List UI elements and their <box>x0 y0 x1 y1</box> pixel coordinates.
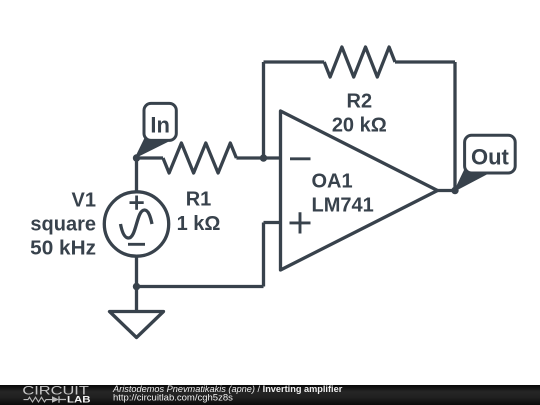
op-amp noninverting input plus sign <box>290 212 311 233</box>
wire noninverting vertical <box>262 223 265 287</box>
svg-text:In: In <box>150 112 170 137</box>
op-amp OA1 triangle <box>281 111 438 270</box>
svg-text:Out: Out <box>471 144 510 169</box>
wire R1 right to inverting input node <box>236 156 281 159</box>
node output junction <box>451 187 458 194</box>
wire feedback right vertical <box>453 62 456 191</box>
V1 plus sign <box>130 196 144 210</box>
voltage source V1 circle <box>104 192 168 256</box>
svg-text:V1: V1 <box>72 190 96 212</box>
svg-text:http://circuitlab.com/cgh5z8s: http://circuitlab.com/cgh5z8s <box>113 392 233 403</box>
ground symbol <box>110 312 164 338</box>
Out flag box <box>465 135 516 173</box>
node bottom junction <box>133 283 140 290</box>
svg-text:50 kHz: 50 kHz <box>30 238 96 260</box>
wire ground stem <box>135 287 138 312</box>
svg-text:LM741: LM741 <box>312 195 374 217</box>
In flag tail <box>136 135 168 158</box>
resistor R2 <box>324 47 395 77</box>
wire bottom horizontal (noninverting net) <box>137 285 264 288</box>
wire feedback left vertical <box>262 62 265 158</box>
wire V1 top stub <box>135 158 138 193</box>
footer bar <box>0 385 540 405</box>
V1 minus sign <box>128 243 145 246</box>
wire feedback top left <box>264 60 325 63</box>
resistor R1 <box>163 143 236 173</box>
CircuitLab logo mini schematic wire <box>24 397 53 402</box>
CircuitLab logo mini diode <box>52 396 59 402</box>
node inverting input junction <box>260 154 267 161</box>
svg-text:1 kΩ: 1 kΩ <box>177 213 221 235</box>
wire op-amp output stub <box>438 189 456 192</box>
op-amp inverting input minus sign <box>290 157 311 160</box>
V1 sine waveform glyph <box>121 210 153 238</box>
wire noninverting input horizontal <box>264 221 282 224</box>
svg-text:20 kΩ: 20 kΩ <box>332 115 387 137</box>
In flag box <box>144 103 176 140</box>
wire In node to R1 left <box>137 156 164 159</box>
svg-text:OA1: OA1 <box>312 171 353 193</box>
Out flag tail <box>455 167 490 191</box>
svg-text:R1: R1 <box>186 189 212 211</box>
node In junction <box>133 154 140 161</box>
svg-text:R2: R2 <box>347 91 373 113</box>
wire feedback top right <box>395 60 455 63</box>
svg-text:LAB: LAB <box>67 394 91 404</box>
svg-text:square: square <box>30 214 96 236</box>
wire V1 bottom stub <box>135 255 138 287</box>
